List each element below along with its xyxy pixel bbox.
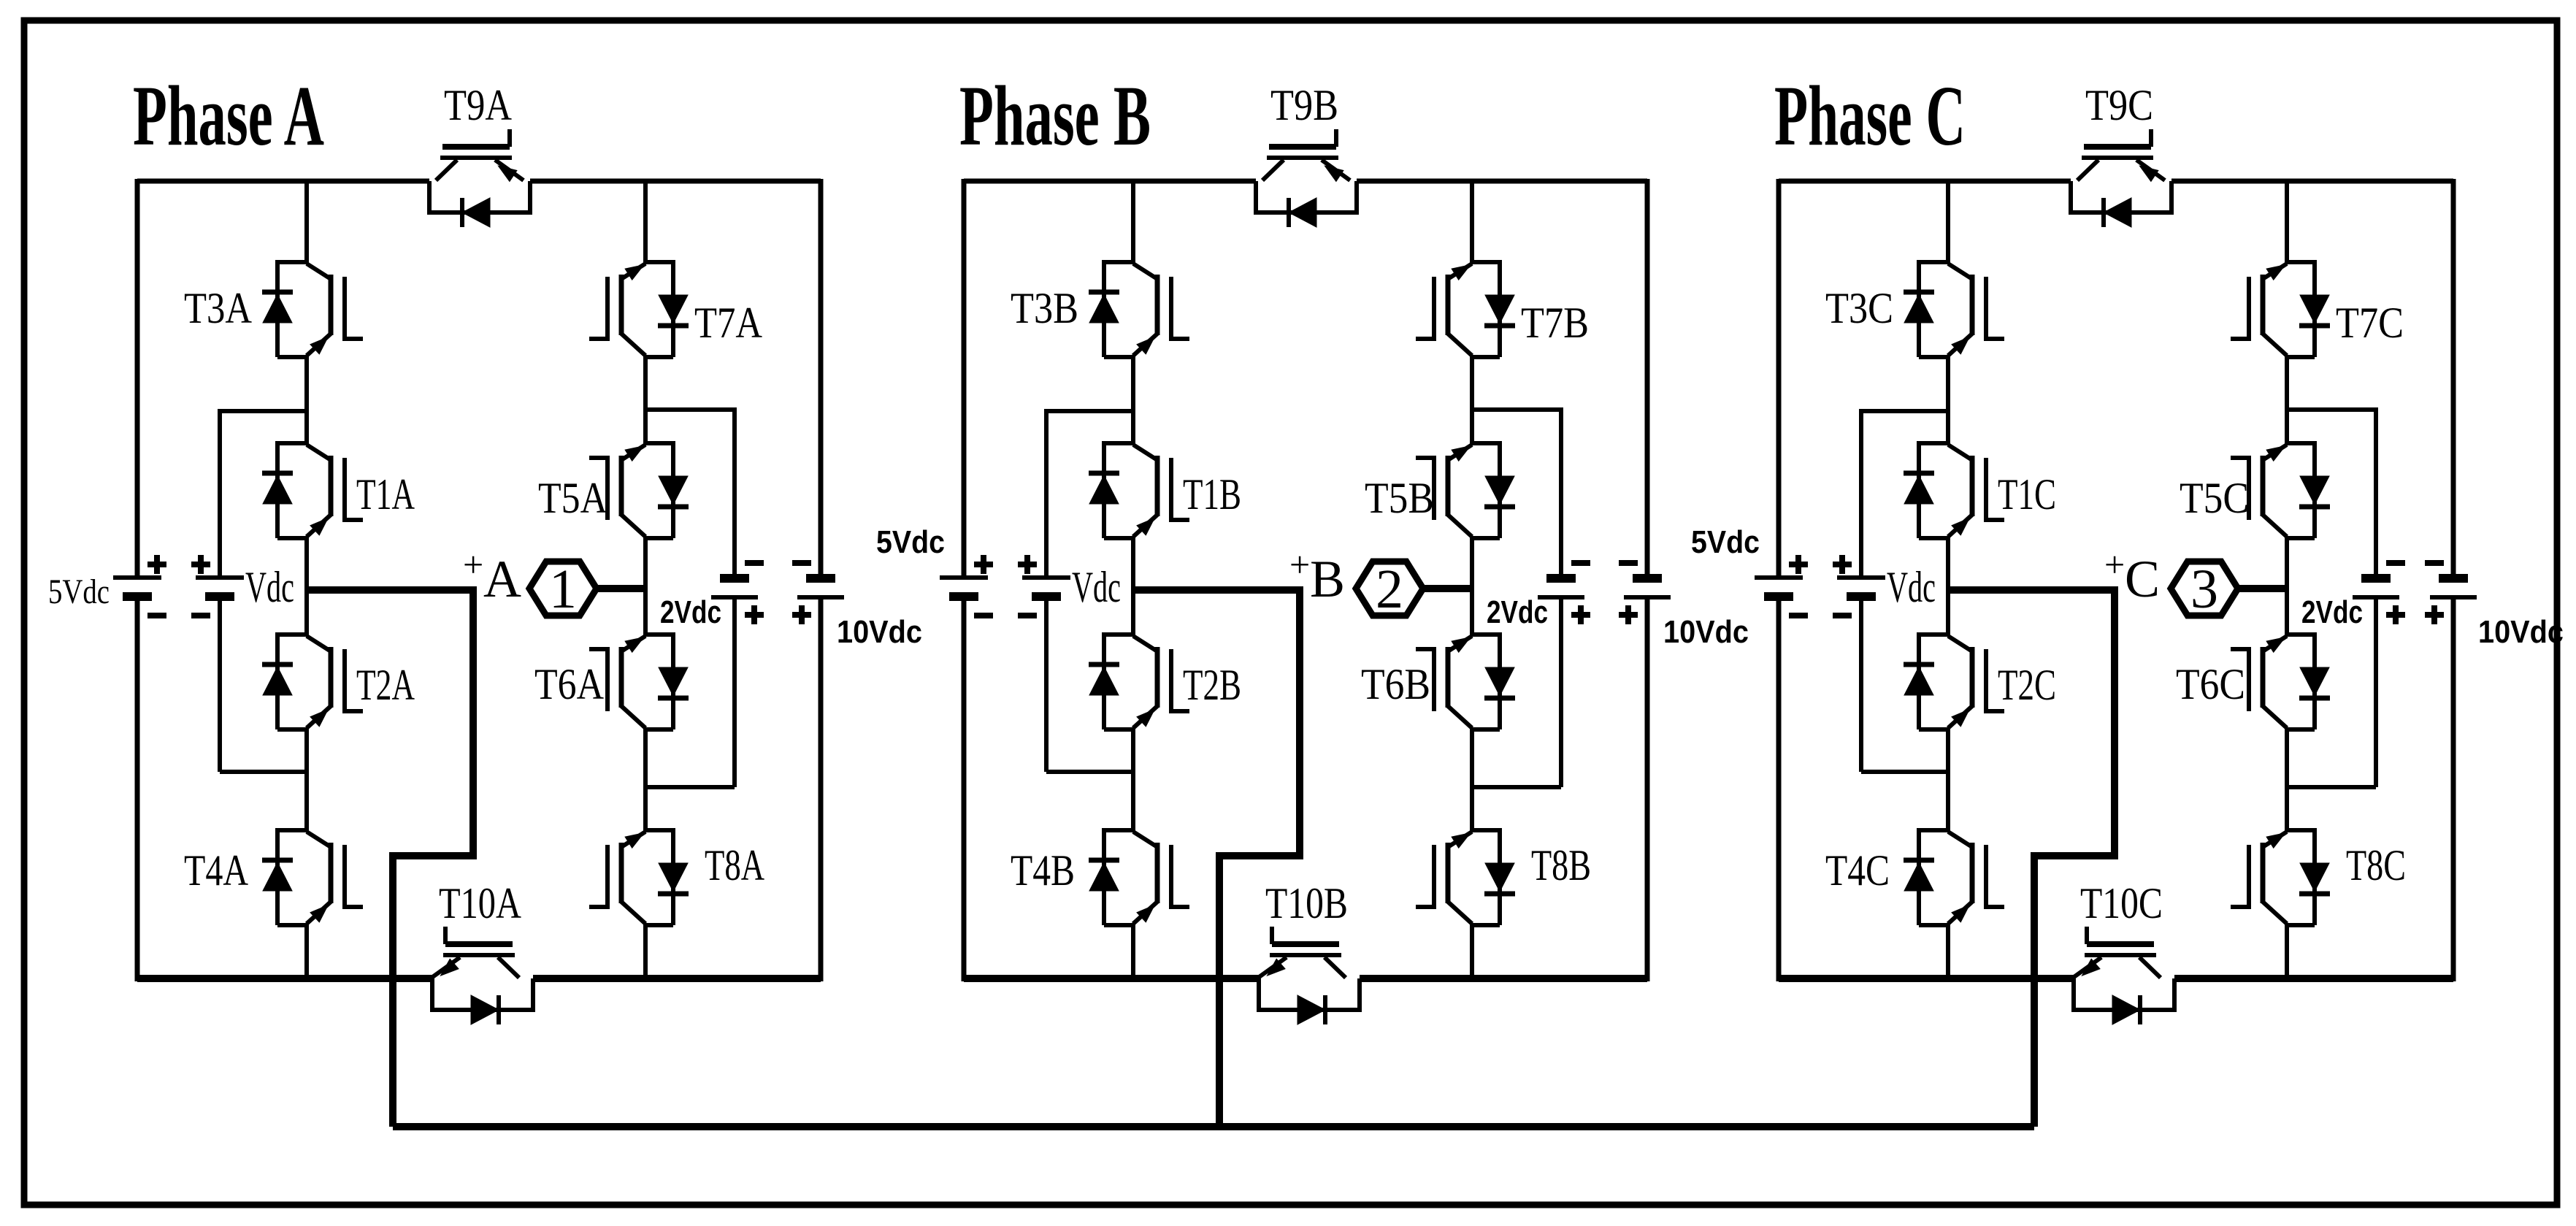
svg-text:2Vdc: 2Vdc	[2301, 594, 2363, 630]
svg-text:+: +	[463, 544, 483, 585]
wire: right edge with 10Vdc source, phase C	[2451, 179, 2456, 576]
svg-text:T3B: T3B	[1011, 284, 1078, 332]
transistor T1C (IGBT with antiparallel diode)	[1904, 441, 2004, 538]
svg-text:A: A	[483, 550, 521, 608]
wire: common neutral bus linking the three phase output runs	[393, 1123, 2034, 1130]
svg-text:T4A: T4A	[184, 846, 248, 894]
svg-text:5Vdc: 5Vdc	[48, 572, 110, 611]
svg-text:T8A: T8A	[705, 841, 764, 889]
svg-text:T1A: T1A	[356, 470, 415, 518]
transistor T9B (bidirectional switch on bus)	[1256, 129, 1357, 227]
wire: right leg (T7-T5-T6-T8 string), phase C	[2285, 181, 2289, 264]
transistor T8B (IGBT with antiparallel diode)	[1416, 828, 1515, 925]
transistor T3A (IGBT with antiparallel diode)	[262, 260, 363, 357]
wire: left edge with 5Vdc source, phase A	[135, 179, 140, 575]
transistor T6A (IGBT with antiparallel diode)	[589, 632, 689, 729]
battery 5Vdc phase A	[113, 555, 166, 616]
wire: left leg (T3-T1-T2-T4 string), phase B	[1131, 181, 1135, 264]
svg-text:2Vdc: 2Vdc	[660, 594, 721, 630]
svg-text:2Vdc: 2Vdc	[1487, 594, 1548, 630]
svg-text:2: 2	[1376, 559, 1403, 620]
transistor T4A (IGBT with antiparallel diode)	[262, 828, 363, 925]
battery 2Vdc phase C	[2353, 563, 2405, 624]
transistor T10C (bidirectional switch on bus)	[2073, 927, 2174, 1024]
svg-text:10Vdc: 10Vdc	[837, 614, 922, 650]
wire: 2Vdc source branch, phase B	[1472, 407, 1561, 412]
transistor T8C (IGBT with antiparallel diode)	[2231, 828, 2330, 925]
wire: Vdc source branch, phase C	[1861, 409, 1948, 413]
wire: top bus of phase B	[964, 179, 1256, 184]
svg-text:T5A: T5A	[538, 474, 607, 522]
wire: bottom bus of phase B	[964, 975, 1259, 982]
wire: left leg (T3-T1-T2-T4 string), phase C	[1946, 181, 1950, 264]
battery 5Vdc phase C	[1755, 555, 1808, 616]
wire: right leg (T7-T5-T6-T8 string), phase A	[643, 181, 648, 264]
transistor T3B (IGBT with antiparallel diode)	[1089, 260, 1189, 357]
svg-text:T9C: T9C	[2085, 81, 2153, 129]
wire: 2Vdc source branch, phase A	[645, 407, 735, 412]
node 3 / phase C output (output terminal hexagon)	[2171, 559, 2238, 620]
wire: phase C neutral-side output run (node +C to common bus)	[1948, 590, 2115, 1127]
transistor T7A (IGBT with antiparallel diode)	[589, 260, 689, 357]
transistor T9C (bidirectional switch on bus)	[2071, 129, 2171, 227]
transistor T2C (IGBT with antiparallel diode)	[1904, 632, 2004, 729]
battery Vdc phase B	[1018, 555, 1070, 616]
svg-text:10Vdc: 10Vdc	[2478, 614, 2564, 650]
svg-text:1: 1	[549, 559, 577, 620]
svg-text:3: 3	[2190, 559, 2218, 620]
transistor T1A (IGBT with antiparallel diode)	[262, 441, 363, 538]
svg-text:T2C: T2C	[1998, 661, 2056, 709]
svg-text:T3A: T3A	[184, 284, 252, 332]
svg-text:T7C: T7C	[2336, 299, 2404, 347]
node 1 / phase A output (output terminal hexagon)	[529, 559, 597, 620]
battery 5Vdc phase B	[940, 555, 993, 616]
wire: hexagon B output stub to right leg	[1423, 585, 1472, 592]
svg-text:Vdc: Vdc	[1072, 563, 1121, 611]
wire: top bus of phase C	[1779, 179, 2071, 184]
svg-text:T2B: T2B	[1183, 661, 1241, 709]
svg-text:T4B: T4B	[1011, 846, 1075, 894]
wire: left edge with 5Vdc source, phase B	[962, 179, 967, 575]
battery 10Vdc phase B	[1619, 563, 1671, 624]
svg-text:T6C: T6C	[2176, 660, 2245, 708]
wire: phase B neutral-side output run (node +B to common bus)	[1133, 590, 1300, 1127]
wire: left edge with 5Vdc source, phase C	[1776, 179, 1782, 575]
wire: 2Vdc source branch, phase C	[2287, 407, 2376, 412]
svg-text:T1C: T1C	[1998, 470, 2056, 518]
transistor T7C (IGBT with antiparallel diode)	[2231, 260, 2330, 357]
transistor T9A (bidirectional switch on bus)	[429, 129, 530, 227]
battery 2Vdc phase B	[1538, 563, 1590, 624]
svg-text:T10A: T10A	[439, 879, 521, 927]
transistor T8A (IGBT with antiparallel diode)	[589, 828, 689, 925]
svg-text:T10C: T10C	[2080, 879, 2163, 927]
svg-text:T9A: T9A	[444, 81, 512, 129]
transistor T3C (IGBT with antiparallel diode)	[1904, 260, 2004, 357]
node 2 / phase B output (output terminal hexagon)	[1356, 559, 1423, 620]
svg-text:T7A: T7A	[694, 299, 762, 347]
svg-text:5Vdc: 5Vdc	[876, 524, 945, 560]
svg-text:T7B: T7B	[1521, 299, 1589, 347]
transistor T4B (IGBT with antiparallel diode)	[1089, 828, 1189, 925]
wire: bottom bus of phase A	[137, 975, 432, 982]
svg-text:T2A: T2A	[356, 661, 415, 709]
transistor T6B (IGBT with antiparallel diode)	[1416, 632, 1515, 729]
svg-text:T6A: T6A	[534, 660, 604, 708]
svg-text:T9B: T9B	[1270, 81, 1338, 129]
svg-text:T5B: T5B	[1365, 474, 1434, 522]
svg-text:T1B: T1B	[1183, 470, 1241, 518]
transistor T4C (IGBT with antiparallel diode)	[1904, 828, 2004, 925]
svg-text:+: +	[2104, 544, 2125, 585]
transistor T5B (IGBT with antiparallel diode)	[1416, 441, 1515, 538]
wire: hexagon A output stub to right leg	[597, 585, 645, 592]
wire: bottom bus of phase C	[1779, 975, 2074, 982]
transistor T2B (IGBT with antiparallel diode)	[1089, 632, 1189, 729]
svg-text:+: +	[1289, 544, 1310, 585]
wire: right edge with 10Vdc source, phase A	[819, 179, 824, 576]
battery Vdc phase A	[191, 555, 244, 616]
wire: Vdc source branch, phase A	[220, 409, 307, 413]
transistor T5C (IGBT with antiparallel diode)	[2231, 441, 2330, 538]
transistor T1B (IGBT with antiparallel diode)	[1089, 441, 1189, 538]
battery 10Vdc phase C	[2425, 563, 2477, 624]
battery Vdc phase C	[1833, 555, 1885, 616]
wire: hexagon C output stub to right leg	[2238, 585, 2287, 592]
battery 2Vdc phase A	[711, 563, 764, 624]
svg-text:T10B: T10B	[1265, 879, 1348, 927]
wire: phase A neutral-side output run (node +A to common bus)	[307, 590, 473, 1127]
wire: Vdc source branch, phase B	[1046, 409, 1133, 413]
svg-text:Phase B: Phase B	[959, 68, 1151, 164]
svg-text:C: C	[2125, 550, 2160, 608]
wire: right leg (T7-T5-T6-T8 string), phase B	[1470, 181, 1474, 264]
svg-text:10Vdc: 10Vdc	[1663, 614, 1749, 650]
svg-text:Vdc: Vdc	[245, 563, 294, 611]
svg-text:T4C: T4C	[1825, 846, 1890, 894]
transistor T5A (IGBT with antiparallel diode)	[589, 441, 689, 538]
svg-text:T6B: T6B	[1361, 660, 1430, 708]
svg-text:T5C: T5C	[2180, 474, 2249, 522]
svg-text:Vdc: Vdc	[1887, 563, 1936, 611]
svg-text:T8B: T8B	[1531, 841, 1591, 889]
svg-text:Phase A: Phase A	[133, 68, 324, 164]
transistor T10A (bidirectional switch on bus)	[432, 927, 533, 1024]
wire: left leg (T3-T1-T2-T4 string), phase A	[304, 181, 309, 264]
transistor T2A (IGBT with antiparallel diode)	[262, 632, 363, 729]
transistor T6C (IGBT with antiparallel diode)	[2231, 632, 2330, 729]
transistor T7B (IGBT with antiparallel diode)	[1416, 260, 1515, 357]
svg-text:T3C: T3C	[1825, 284, 1893, 332]
wire: top bus of phase A	[137, 179, 429, 184]
svg-text:B: B	[1310, 550, 1345, 608]
battery 10Vdc phase A	[792, 563, 844, 624]
wire: right edge with 10Vdc source, phase B	[1645, 179, 1650, 576]
svg-text:5Vdc: 5Vdc	[1691, 524, 1760, 560]
transistor T10B (bidirectional switch on bus)	[1258, 927, 1360, 1024]
svg-text:Phase C: Phase C	[1774, 68, 1966, 164]
svg-text:T8C: T8C	[2346, 841, 2406, 889]
